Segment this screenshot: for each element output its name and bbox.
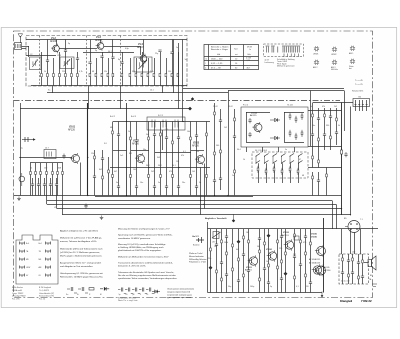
svg-text:47: 47 <box>299 159 301 161</box>
svg-text:k: k <box>205 67 206 69</box>
svg-text:Tast: Tast <box>234 48 238 51</box>
resistor R1.12 string <box>112 40 114 86</box>
svg-text:Widerstände (20%) und Toleranz: Widerstände (20%) und Toleranzwerte nach <box>60 247 103 250</box>
IF coil tick marks <box>284 54 298 58</box>
svg-text:AF106: AF106 <box>95 39 102 42</box>
ground left <box>17 197 21 201</box>
svg-text:Relative 80%: Relative 80% <box>352 90 363 93</box>
resistor R1.22 string <box>178 52 180 86</box>
svg-text:Bu1: Bu1 <box>26 243 29 245</box>
capacitor C1.5 <box>64 50 67 52</box>
feedthrough NF <box>232 219 235 222</box>
IF string 9 <box>172 122 174 196</box>
svg-text:V3.05: V3.05 <box>311 234 317 236</box>
wire switch drop 4 <box>290 163 292 168</box>
legend resistor symbol <box>89 288 94 290</box>
junction dots rails <box>126 195 127 196</box>
legend symbol 5p <box>118 288 126 294</box>
wire switch drop 1 <box>266 163 268 170</box>
svg-text:1k: 1k <box>266 261 268 263</box>
svg-text:Uʙ 9 V: Uʙ 9 V <box>192 236 199 238</box>
legend symbol µF <box>132 288 140 294</box>
resistor R2.81 <box>297 168 299 175</box>
svg-text:8k2: 8k2 <box>129 153 132 155</box>
wire output bus <box>323 218 325 293</box>
resistor R1.15 string <box>136 58 138 86</box>
NF string 3 <box>220 229 223 293</box>
svg-text:напряжений замеров даны: напряжений замеров даны <box>167 293 193 296</box>
resistor R1.9 string <box>96 58 98 86</box>
svg-text:68: 68 <box>92 71 94 73</box>
wire long rail to right section <box>183 88 344 90</box>
wire NF left edge <box>207 222 209 293</box>
svg-text:Masse bedeuten: Masse bedeuten <box>189 255 204 258</box>
wire tuner AGC rail <box>47 92 187 94</box>
svg-text:in Stellung UKW/0,8kHz; am PM-: in Stellung UKW/0,8kHz; am PM-Eingang na… <box>118 246 164 249</box>
svg-text:V3.01: V3.01 <box>246 267 252 269</box>
svg-text:2,24: 2,24 <box>247 60 251 62</box>
svg-text:15k: 15k <box>176 161 179 163</box>
transistor V3.02 circle <box>267 250 277 261</box>
svg-text:1k2: 1k2 <box>224 127 227 129</box>
svg-text:30.2: 30.2 <box>146 165 150 167</box>
capacitor C2.80 <box>344 152 347 157</box>
resistor R2.78 <box>273 166 275 173</box>
legend electrolytic symbol <box>100 287 109 291</box>
svg-text:Bu2.2: Bu2.2 <box>110 116 115 118</box>
NF string 2 <box>215 229 218 293</box>
capacitor C1.7 <box>76 58 79 60</box>
NF string 14 <box>284 229 287 293</box>
wire B5 drop <box>354 233 356 255</box>
resistor R2.64 <box>295 116 297 123</box>
resistor R3.32 string <box>351 254 354 284</box>
wire NF bottom rail <box>208 292 323 294</box>
wire right bus 2 <box>178 43 180 109</box>
wire switch rail <box>110 167 210 169</box>
svg-text:C2: C2 <box>30 54 32 56</box>
svg-text:Tₐ = +45: Tₐ = +45 <box>355 80 364 82</box>
connector pin P8 <box>46 266 51 270</box>
svg-text:30p: 30p <box>143 149 146 151</box>
alignment core K2 <box>332 47 337 52</box>
wire tuner mid link2 <box>104 46 140 48</box>
svg-text:AM 2: AM 2 <box>313 66 317 69</box>
svg-text:460 kHz: 460 kHz <box>331 69 338 71</box>
resistor R1.6 string <box>71 58 73 86</box>
svg-text:23.02: 23.02 <box>228 106 233 108</box>
svg-text:2k2: 2k2 <box>334 106 337 108</box>
wire tuner mid link <box>59 48 97 50</box>
FM tuner shield box <box>26 36 187 87</box>
resistor R2.67 <box>295 133 297 140</box>
svg-text:220: 220 <box>62 71 65 73</box>
legend symbol n5 <box>125 288 133 294</box>
svg-text:Nur die zur Wartung zugelassen: Nur die zur Wartung zugelassenen Meßinst… <box>118 274 177 277</box>
svg-text:renvoltmeter 10 MΩ/V gemessen.: renvoltmeter 10 MΩ/V gemessen. <box>118 237 151 240</box>
volume potentiometer <box>213 232 219 239</box>
feedthrough diamond c <box>191 97 194 100</box>
svg-text:3p: 3p <box>68 43 70 45</box>
resistor R2.8 <box>93 150 96 196</box>
schematic chain border <box>14 31 373 298</box>
capacitor C1.8 <box>88 62 91 64</box>
svg-text:10.1: 10.1 <box>150 90 154 92</box>
svg-text:5n: 5n <box>158 182 160 184</box>
svg-text:6k8: 6k8 <box>196 151 199 153</box>
svg-text:Werte П u. v. vergl. Liste: Werte П u. v. vergl. Liste <box>118 299 138 302</box>
svg-text:30.1 30.2 30.3: 30.1 30.2 30.3 <box>255 150 267 152</box>
IF string 13 <box>206 122 208 196</box>
NF string 1 <box>209 229 212 293</box>
IF string 3 <box>130 122 132 196</box>
svg-text:47k: 47k <box>322 106 325 108</box>
svg-text:Transistoren abweichend ± (±10: Transistoren abweichend ± (±10%) während… <box>118 262 173 265</box>
NF string 13 <box>280 229 283 293</box>
capacitor C1.10 <box>100 56 103 58</box>
switch contact S2 <box>265 154 269 157</box>
svg-text:23.02: 23.02 <box>213 106 218 108</box>
svg-text:4,7k: 4,7k <box>79 71 83 73</box>
wire am bottom rail <box>14 195 253 197</box>
wire vertical feed a <box>52 86 54 93</box>
svg-text:конденсаторов ёмкостей: конденсаторов ёмкостей <box>167 290 190 293</box>
resistor R2.77 <box>265 168 267 175</box>
resistor R1.19 string <box>160 52 162 86</box>
svg-text:6k8: 6k8 <box>58 168 61 170</box>
resistor R2.65 <box>301 113 303 120</box>
chassis connector outline <box>16 235 58 284</box>
transistor V1.2 circle <box>51 44 59 54</box>
svg-text:1n5: 1n5 <box>120 155 123 157</box>
selenium diode <box>19 173 25 186</box>
connector pin P3 <box>20 250 25 254</box>
resistor R1.16 string <box>142 52 144 86</box>
alignment core K5 <box>332 60 337 65</box>
wire vertical feed c <box>120 86 122 109</box>
transistor V3.01 circle <box>248 255 258 266</box>
connector pin P9 <box>20 274 25 278</box>
capacitor C2.3 <box>62 154 65 159</box>
IF trap box 10.7 <box>44 150 56 159</box>
svg-text:(37-polig) 7RB22: (37-polig) 7RB22 <box>12 296 26 298</box>
IF coil symbols <box>267 47 300 53</box>
capacitor C2.11 <box>37 178 40 196</box>
svg-text:UKW: UKW <box>26 267 30 269</box>
wire thick right bus <box>341 103 343 216</box>
legend symbol Dr <box>146 288 154 294</box>
svg-text:100: 100 <box>133 169 136 171</box>
svg-text:AF126: AF126 <box>192 144 199 147</box>
wire NF top rail <box>208 228 379 230</box>
switch contact S3 <box>273 154 277 157</box>
svg-text:12k: 12k <box>91 153 94 155</box>
svg-text:2,2k: 2,2k <box>150 71 154 73</box>
svg-text:0,52 — 1,35: 0,52 — 1,35 <box>211 63 223 65</box>
svg-text:12k: 12k <box>104 71 107 73</box>
svg-text:Röhrenvoltm. 10 MΩ/V gegen Mas: Röhrenvoltm. 10 MΩ/V gegen Masse (±2%). <box>60 276 103 279</box>
diode V2.06 <box>270 136 280 140</box>
wire under detector <box>246 147 248 152</box>
svg-text:7.1: 7.1 <box>360 219 363 221</box>
resistor R3.34 string <box>361 254 364 284</box>
legend symbol Tr <box>139 288 147 294</box>
transistor V2.02 circle <box>135 153 145 164</box>
wire speaker link <box>364 262 368 264</box>
svg-text:20n: 20n <box>182 182 185 184</box>
svg-text:AM 1: AM 1 <box>349 52 353 55</box>
svg-text:5p: 5p <box>119 294 121 296</box>
legend diode symbol <box>152 290 160 293</box>
wire switch drop 2 <box>274 163 276 168</box>
capacitor C2.63 <box>248 118 251 123</box>
svg-text:5n: 5n <box>285 149 287 151</box>
svg-text:Pfeile an Trafo/: Pfeile an Trafo/ <box>189 253 203 255</box>
svg-text:68k: 68k <box>110 127 113 129</box>
NF string 15 <box>293 229 296 293</box>
svg-text:73.142: 73.142 <box>287 105 293 107</box>
resistor R2.68 <box>301 130 303 137</box>
wire if link d <box>155 152 173 154</box>
alignment core K3 <box>350 46 355 51</box>
wire nf risers top <box>341 229 343 254</box>
svg-text:330: 330 <box>326 125 329 127</box>
connector pin P4 <box>46 250 51 254</box>
svg-text:68: 68 <box>302 175 304 177</box>
svg-text:AF125: AF125 <box>250 114 257 117</box>
dashed section divider in tuner 3 <box>86 36 88 87</box>
resistor R1.17 string <box>148 58 150 86</box>
svg-text:10k: 10k <box>214 246 217 248</box>
wire switch drop 3 <box>282 163 284 170</box>
resistor R2.83 string <box>317 108 320 168</box>
svg-text:8p: 8p <box>118 59 120 61</box>
wire left bus <box>20 103 22 196</box>
resistor R2.3 <box>40 163 42 196</box>
svg-text:Meßwerte mit (-20%) ±0,1 V bei: Meßwerte mit (-20%) ±0,1 V bei ZF-AM ge- <box>60 237 102 240</box>
NF string 5 <box>232 229 234 293</box>
resistor R1.2 string <box>47 40 49 86</box>
capacitor C2.64 <box>248 132 251 137</box>
resistor R2.60 string <box>213 103 216 196</box>
svg-text:0,1 0,1 1Ω: 0,1 0,1 1Ω <box>341 281 350 283</box>
wire rail A <box>95 196 253 198</box>
resistor R2.82 string <box>311 110 314 168</box>
svg-text:100k: 100k <box>224 242 228 244</box>
wire riser 204 <box>204 164 206 209</box>
ground rail <box>100 216 104 220</box>
wire speaker top feed <box>360 229 362 254</box>
wire detector interior <box>246 112 248 142</box>
svg-text:UKW2: UKW2 <box>331 54 336 56</box>
svg-text:руководствам переключат.: руководствам переключат. <box>167 297 192 299</box>
resistor R1.1 string <box>41 52 43 86</box>
svg-text:1M: 1M <box>246 232 249 234</box>
svg-text:56k: 56k <box>257 246 260 248</box>
NF string 6 <box>237 229 240 293</box>
antenna coupling coil L1 <box>15 43 22 50</box>
diode V2.05 <box>270 118 280 122</box>
switch contact box <box>252 152 308 178</box>
svg-text:AF126: AF126 <box>132 142 139 145</box>
resistor R2.5 <box>52 163 54 196</box>
resistor R2.1 <box>30 163 32 196</box>
capacitor C1.21 <box>170 52 173 54</box>
wire box right edge <box>344 91 346 132</box>
wire 228 vertical <box>228 91 230 196</box>
wire rail risers left <box>46 196 48 205</box>
svg-text:30.2: 30.2 <box>158 165 162 167</box>
IF string 10 <box>177 122 180 196</box>
connector pin P6 <box>46 258 51 262</box>
svg-text:Gleichspannung 0,1 V/90 Hz; ge: Gleichspannung 0,1 V/90 Hz; gemessen mit <box>60 272 103 275</box>
wire right cluster rails <box>308 110 342 112</box>
IF transformer box Fi2.1 <box>147 117 185 130</box>
svg-text:1n: 1n <box>185 59 187 61</box>
wire antenna feed <box>20 42 22 45</box>
svg-text:10n: 10n <box>312 125 315 127</box>
transistor V3.03 circle <box>284 239 294 250</box>
connector pin P7 <box>20 266 25 270</box>
transistor V2.04 circle <box>252 122 262 133</box>
svg-text:V1.4: V1.4 <box>138 43 143 46</box>
svg-text:Klangteil: Klangteil <box>340 299 352 303</box>
svg-text:Ausgenommen Werte mit * sind g: Ausgenommen Werte mit * sind gesondert <box>60 261 101 264</box>
resistor R2.80 <box>289 166 291 173</box>
NF string 10 <box>263 229 266 293</box>
svg-text:Lackierung: Lackierung <box>265 61 274 64</box>
svg-text:Unten-Ansicht (47): Unten-Ansicht (47) <box>39 292 54 295</box>
svg-text:2n: 2n <box>232 175 234 177</box>
connector pin 2 <box>359 100 361 111</box>
svg-text:Pos. 14: Pos. 14 <box>39 299 45 301</box>
resistor R2.6 <box>57 163 59 196</box>
capacitor C2.85 string <box>317 172 320 196</box>
svg-text:6,8p: 6,8p <box>125 48 129 50</box>
wire switch drop 5 <box>298 163 300 170</box>
resistor R2.84 string <box>323 108 326 150</box>
resistor R2.61 string <box>219 109 222 190</box>
svg-text:Bu2: Bu2 <box>39 243 42 245</box>
svg-text:4k7: 4k7 <box>114 171 117 173</box>
wire if link c <box>113 150 127 152</box>
antenna ANT <box>18 34 23 43</box>
wire transistor feeds <box>100 40 102 43</box>
transistor V3.06 circle <box>315 265 326 277</box>
connector pin P10 <box>46 274 51 278</box>
svg-text:1k: 1k <box>310 106 312 108</box>
IF string 11 <box>190 122 192 196</box>
svg-text:0,1: 0,1 <box>183 151 186 153</box>
resistor R1.10 string <box>102 52 104 86</box>
alignment core K6 <box>350 59 355 64</box>
IF string 1 <box>112 122 114 196</box>
loudspeaker <box>368 256 376 270</box>
svg-text:Bereiche u. Zeiger: Bereiche u. Zeiger <box>211 48 228 51</box>
tone network box <box>339 254 369 284</box>
connector pin P1 <box>20 242 25 246</box>
resistor R1.5 string <box>65 40 67 86</box>
resistor R1.4 string <box>59 52 61 86</box>
resistor R1.8 string <box>90 40 92 86</box>
capacitor C2.13 <box>49 178 52 196</box>
svg-text:det: det <box>349 67 352 70</box>
svg-text:keitswerte; lt. 20% mit ±10%.: keitswerte; lt. 20% mit ±10%. <box>118 265 146 268</box>
svg-text:Abgleich n. Vorschrift: Abgleich n. Vorschrift <box>205 217 227 220</box>
svg-text:0,1: 0,1 <box>296 286 299 288</box>
wire under-table link <box>187 92 228 94</box>
resistor R2.63 <box>289 113 291 120</box>
resistor R2.4 <box>46 163 48 196</box>
capacitor C1.30 feedthrough <box>188 107 192 111</box>
resistor R1.11 string <box>108 58 110 86</box>
wire IF top rail <box>20 108 190 110</box>
svg-text:AF126: AF126 <box>68 128 75 131</box>
svg-text:2k2: 2k2 <box>151 171 154 173</box>
svg-text:Batterie: Batterie <box>193 244 200 247</box>
resistor R2.7 <box>62 163 64 196</box>
connector pin 4 <box>366 100 368 111</box>
svg-text:Pos. (79): Pos. (79) <box>12 299 20 301</box>
svg-text:spezifizierten Teilen verwende: spezifizierten Teilen verwenden; Verände… <box>118 277 178 280</box>
svg-text:220: 220 <box>279 248 282 250</box>
svg-text:47,5 — 68: 47,5 — 68 <box>211 67 221 69</box>
svg-text:UKW1: UKW1 <box>313 53 318 55</box>
svg-text:5k6: 5k6 <box>146 134 149 136</box>
IF string 4 <box>135 122 138 196</box>
svg-text:Обозначения величин/объём: Обозначения величин/объём <box>167 289 195 291</box>
svg-text:L2: L2 <box>54 207 56 209</box>
wire top box right <box>228 90 344 92</box>
transistor V2.01 circle <box>70 153 80 164</box>
transistor V3.04 circle <box>312 264 322 275</box>
svg-text:V3.02: V3.02 <box>266 249 272 251</box>
resistor R2.79 <box>281 168 283 175</box>
wire switch drop 0 <box>258 163 260 168</box>
svg-text:V3.03: V3.03 <box>283 232 289 234</box>
wire mid vertical 80 <box>80 163 82 196</box>
switch contact S1 <box>256 154 260 157</box>
svg-text:3k3: 3k3 <box>157 157 160 159</box>
capacitor C2.10 <box>31 178 34 196</box>
NF string 8 <box>247 229 250 293</box>
NF string 16 <box>299 229 302 293</box>
resistor R2.97 string <box>326 168 328 196</box>
svg-text:DIN-mäßig Schutze: DIN-mäßig Schutze <box>189 258 207 261</box>
resistor R1.3 string <box>53 58 55 86</box>
svg-text:Ko: Ko <box>66 294 68 296</box>
switch contact S5 <box>290 154 294 157</box>
svg-text:n5: n5 <box>126 294 128 296</box>
svg-text:46,7: 46,7 <box>247 67 251 69</box>
transistor V2.03 circle <box>195 154 205 165</box>
dashed section divider in tuner <box>39 36 41 87</box>
driver jack B5 <box>345 221 360 233</box>
switch contact S4 <box>282 154 286 157</box>
resistor R1.21 string <box>172 40 174 86</box>
capacitor C1.12 <box>111 57 114 59</box>
svg-text:messen; Toleranz der Angaben ±: messen; Toleranz der Angaben ±10%. <box>60 240 97 243</box>
connector pin 1 <box>355 100 357 111</box>
svg-text:Meßwerte gemessen: Meßwerte gemessen <box>277 65 295 68</box>
IF string 8 <box>165 122 168 196</box>
svg-text:Toleranzen der Ersatzteile: HF: Toleranzen der Ersatzteile: HF-Spulen na… <box>118 271 175 274</box>
wire right bottom rail extension <box>253 195 342 197</box>
IF string 12 <box>195 122 198 196</box>
svg-text:Messung der Ströme und Spannun: Messung der Ströme und Spannungen b. Uʙa… <box>118 228 170 231</box>
wire tuner emitter rail <box>26 55 56 57</box>
resistor R2.95 <box>340 148 342 157</box>
